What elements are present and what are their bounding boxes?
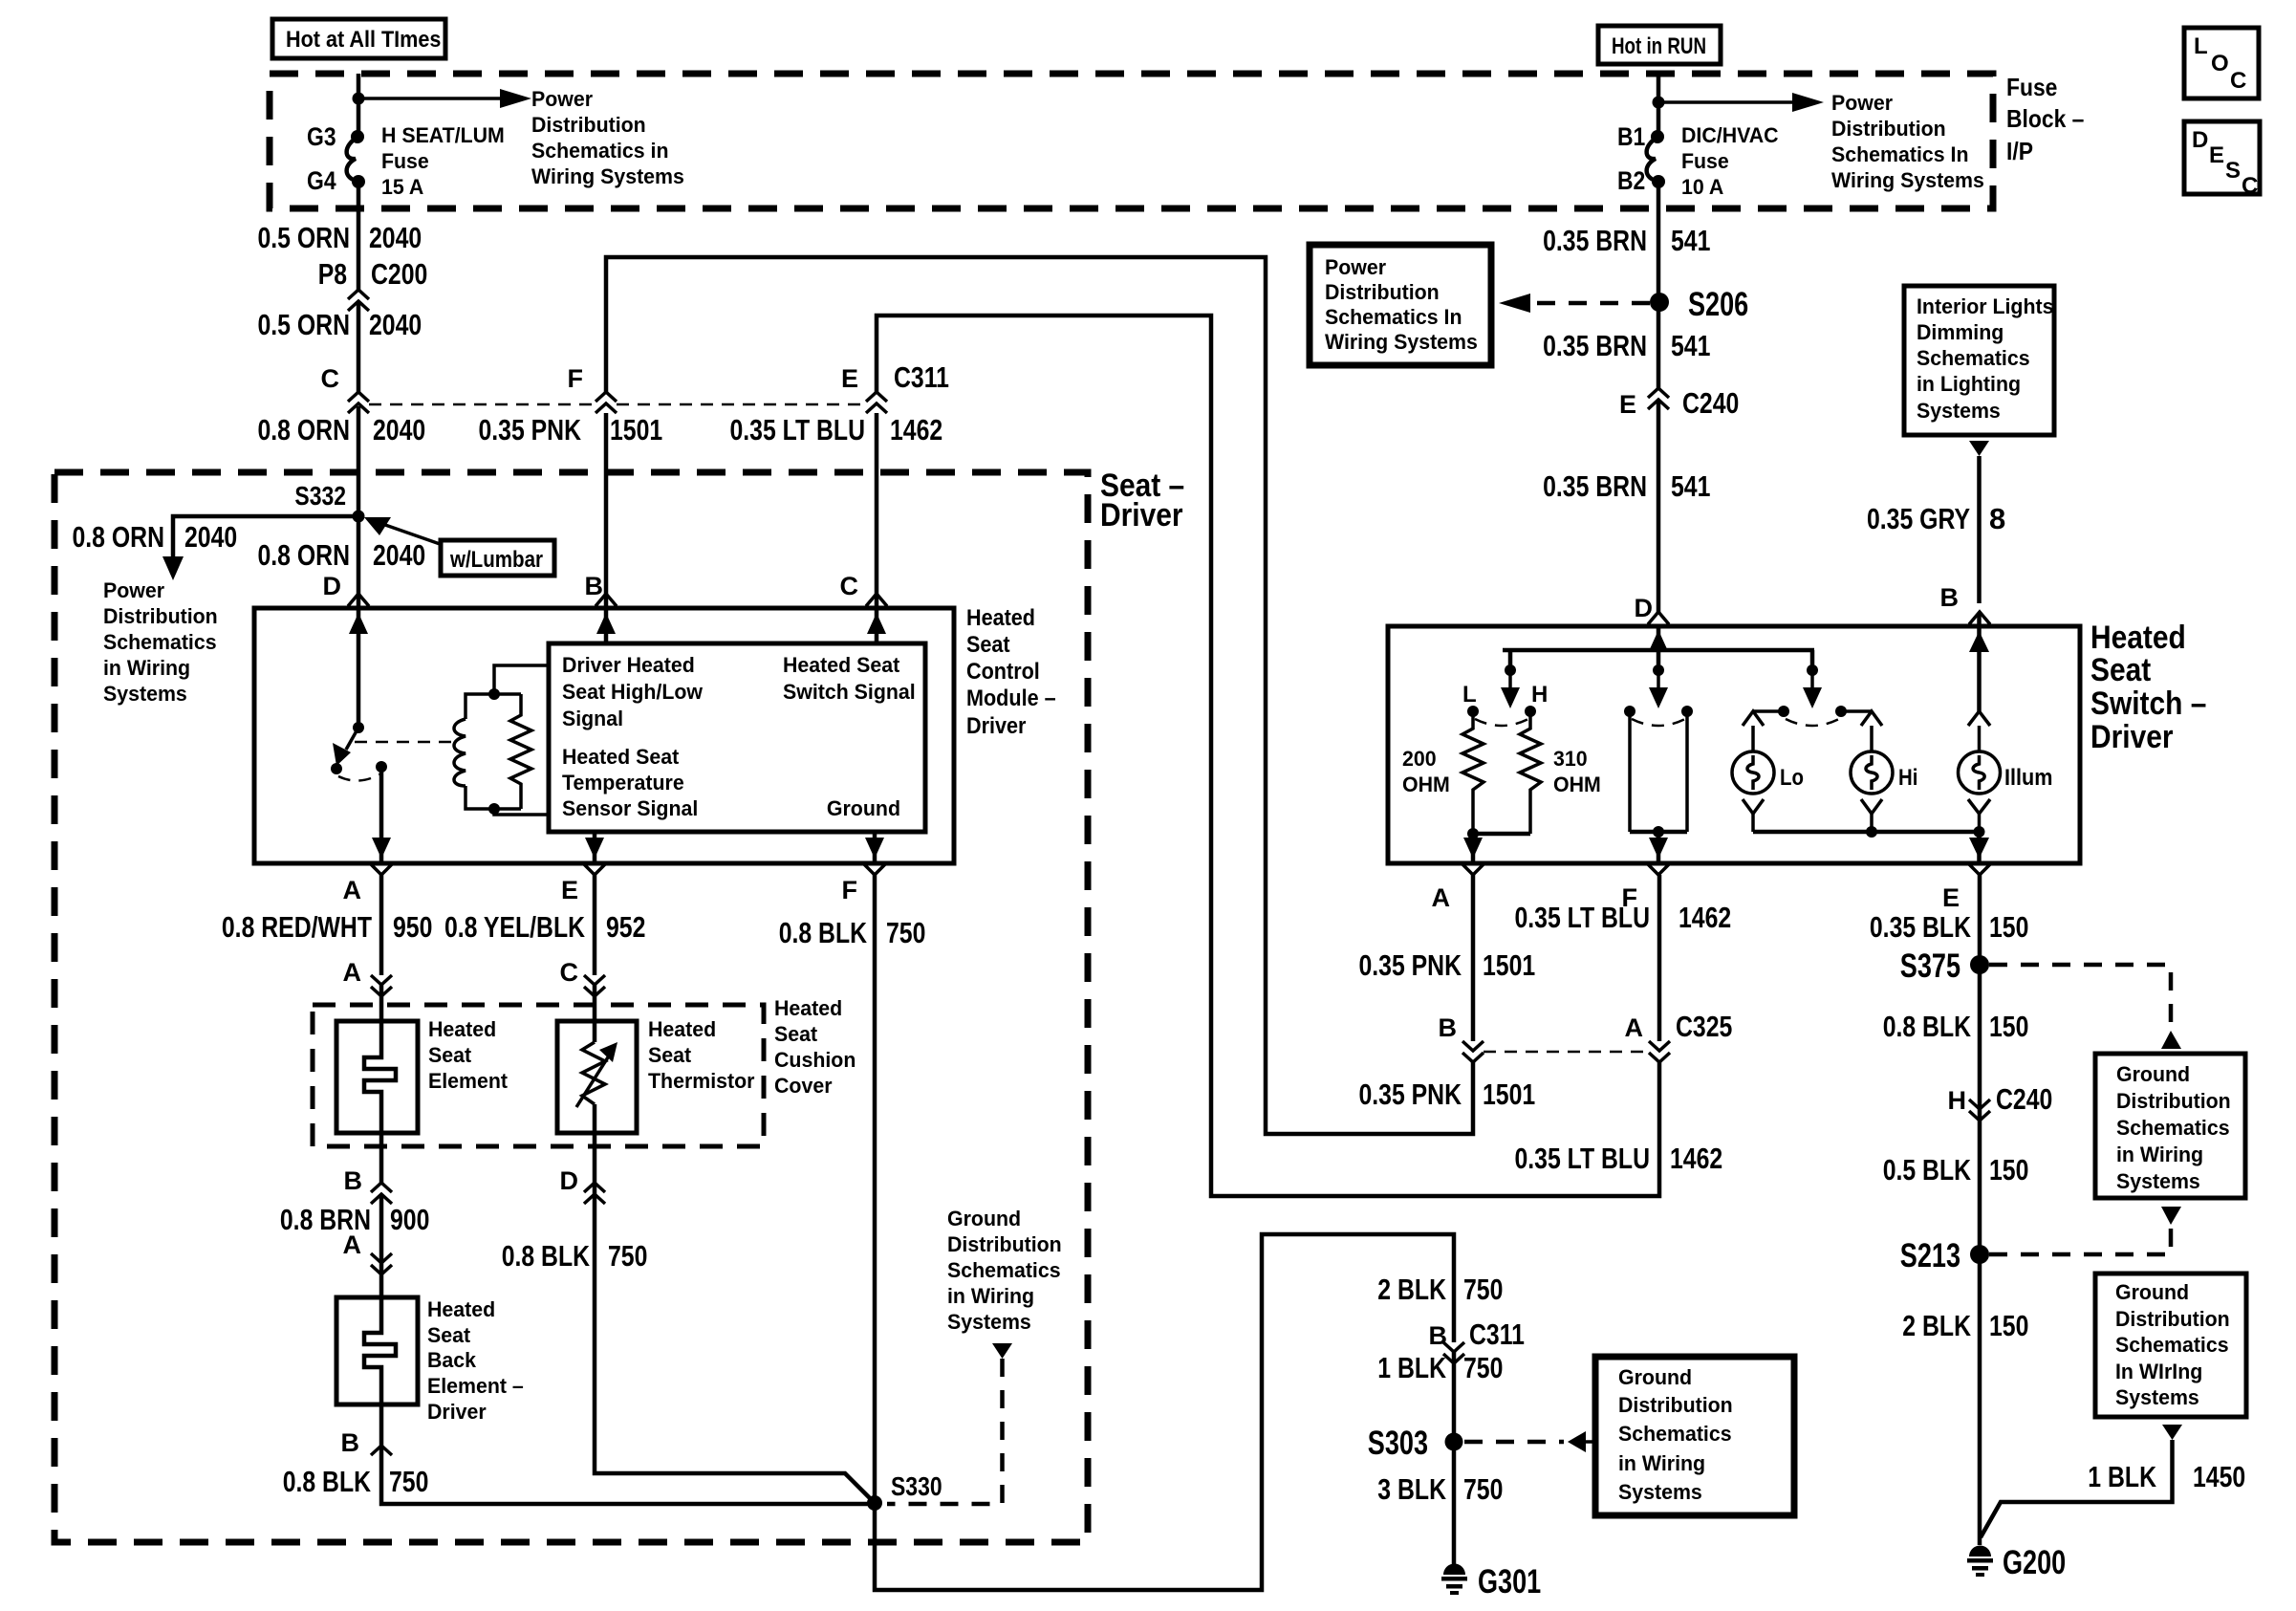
svg-text:S213: S213 xyxy=(1900,1237,1960,1274)
svg-text:Distribution: Distribution xyxy=(531,113,646,137)
svg-text:D: D xyxy=(2192,127,2208,153)
svg-text:0.8 ORN: 0.8 ORN xyxy=(258,413,351,446)
wire: 0.5 ORN 2040 segment xyxy=(357,182,361,290)
svg-text:Switch –: Switch – xyxy=(2090,686,2206,722)
pin B fork (back element) xyxy=(341,1428,393,1457)
svg-text:Schematics In: Schematics In xyxy=(1325,305,1462,329)
ground G301 symbol xyxy=(1441,1563,1541,1600)
wire: S332 branch left with arrow down xyxy=(162,516,358,580)
heated seat thermistor symbol xyxy=(576,1021,617,1133)
svg-text:E: E xyxy=(2209,142,2224,168)
lamp Illum xyxy=(1959,627,2053,832)
pin A fork below switch xyxy=(1432,864,1484,912)
svg-text:1 BLK: 1 BLK xyxy=(1377,1351,1446,1384)
Hot at All Times label box xyxy=(272,19,445,58)
svg-text:Distribution: Distribution xyxy=(2116,1089,2231,1113)
switch internal bus xyxy=(1503,650,1814,670)
svg-text:DIC/HVAC: DIC/HVAC xyxy=(1681,123,1779,147)
pin A fork below module xyxy=(343,864,393,904)
svg-text:Schematics: Schematics xyxy=(103,630,217,654)
switch 3 contacts xyxy=(1753,706,1872,726)
Seat - Driver title xyxy=(1100,468,1184,533)
svg-text:S332: S332 xyxy=(294,481,346,511)
wire: switch output down to pin A with arrow xyxy=(372,767,391,863)
svg-text:S: S xyxy=(2225,158,2241,184)
Seat - Driver dashed box xyxy=(54,472,1088,1542)
heated seat element label xyxy=(428,1017,509,1093)
svg-text:Driver: Driver xyxy=(427,1400,487,1424)
label 0.5 ORN 2040 xyxy=(258,221,422,254)
svg-text:Distribution: Distribution xyxy=(1831,117,1946,141)
svg-text:0.5 ORN: 0.5 ORN xyxy=(258,221,351,254)
heated seat back element box xyxy=(336,1297,418,1404)
G301 column: label 2 BLK 750 xyxy=(1377,1273,1503,1306)
switch 2 stub with arrow xyxy=(1649,664,1668,708)
ground distribution box 1 (right) xyxy=(2095,1054,2245,1198)
svg-text:Seat: Seat xyxy=(2090,652,2151,688)
svg-text:2 BLK: 2 BLK xyxy=(1902,1309,1971,1342)
svg-text:Heated: Heated xyxy=(428,1017,496,1041)
svg-text:1501: 1501 xyxy=(1483,948,1535,982)
wire: E lead xyxy=(593,875,597,975)
connector B chevrons (element) xyxy=(344,1166,393,1204)
svg-text:E: E xyxy=(1619,390,1636,419)
svg-text:B: B xyxy=(1429,1321,1448,1350)
svg-text:Fuse: Fuse xyxy=(2006,73,2057,101)
svg-text:2040: 2040 xyxy=(373,413,425,446)
svg-text:10 A: 10 A xyxy=(1681,175,1723,199)
svg-text:Signal: Signal xyxy=(562,707,623,730)
wire: arrow to power distribution (right) xyxy=(1658,93,1824,112)
pin D fork (switch) xyxy=(1648,612,1669,624)
svg-text:in Wiring: in Wiring xyxy=(2116,1143,2203,1166)
label 0.35 LT BLU 1462 (1) xyxy=(1515,901,1732,934)
svg-text:0.35 PNK: 0.35 PNK xyxy=(1359,1078,1462,1111)
svg-text:Wiring Systems: Wiring Systems xyxy=(531,164,684,188)
svg-text:2040: 2040 xyxy=(369,221,422,254)
w/Lumbar callout box xyxy=(364,517,554,576)
svg-text:Systems: Systems xyxy=(2115,1385,2199,1409)
label 1 BLK 1450 xyxy=(2088,1460,2245,1493)
svg-text:Driver: Driver xyxy=(966,713,1026,739)
wire: switch E lead xyxy=(1978,875,1982,1545)
svg-text:C240: C240 xyxy=(1682,386,1739,420)
svg-text:Switch Signal: Switch Signal xyxy=(783,680,916,704)
triangle to ground note xyxy=(992,1343,1012,1359)
power distribution box (S206) xyxy=(1310,245,1491,365)
label 0.35 BRN 541 (3) xyxy=(1543,469,1710,503)
pin C fork xyxy=(866,594,887,606)
svg-text:B: B xyxy=(344,1166,363,1195)
Hot in RUN label box xyxy=(1598,26,1721,64)
interior lights dimming box xyxy=(1904,286,2054,435)
connector D chevrons (thermistor) xyxy=(560,1166,606,1204)
wire: back element to S330 xyxy=(381,1404,871,1504)
svg-text:Driver: Driver xyxy=(1100,497,1183,533)
svg-text:Systems: Systems xyxy=(947,1310,1031,1334)
svg-text:A: A xyxy=(1432,883,1451,912)
svg-text:Hot in RUN: Hot in RUN xyxy=(1612,33,1706,59)
cushion cover label xyxy=(774,996,856,1098)
svg-text:C: C xyxy=(2230,68,2246,94)
svg-text:1450: 1450 xyxy=(2193,1460,2245,1493)
svg-text:Ground: Ground xyxy=(827,796,900,820)
svg-text:E: E xyxy=(841,364,858,393)
svg-text:C: C xyxy=(560,958,579,987)
svg-text:0.35 BRN: 0.35 BRN xyxy=(1543,224,1647,257)
label 3 BLK 750 xyxy=(1377,1472,1503,1506)
label 0.5 BLK 150 xyxy=(1883,1153,2029,1186)
svg-text:G200: G200 xyxy=(2003,1544,2066,1581)
svg-text:Back: Back xyxy=(427,1348,477,1372)
pin F fork below switch xyxy=(1622,864,1670,912)
label 0.35 PNK 1501 (1) xyxy=(1359,948,1536,982)
switch lamp bus xyxy=(1753,826,1989,863)
svg-text:2040: 2040 xyxy=(373,538,425,572)
fuse block I/P dashed box xyxy=(270,74,1993,208)
label 1 BLK 750 xyxy=(1377,1351,1503,1384)
svg-text:A: A xyxy=(343,958,362,987)
switch 1 stub with arrow xyxy=(1501,664,1520,708)
label 2 BLK 150 xyxy=(1902,1309,2028,1342)
connector A chevrons xyxy=(343,958,393,996)
module inner box xyxy=(549,643,925,832)
switch 2 contacts xyxy=(1624,706,1693,863)
svg-text:F: F xyxy=(568,364,584,393)
wire: down to back element xyxy=(379,1194,384,1297)
label 0.8 BLK 750 (back element) xyxy=(283,1465,429,1498)
node: junction dot right feed xyxy=(1653,97,1665,109)
svg-text:900: 900 xyxy=(390,1203,429,1236)
fuse F2 value label xyxy=(1681,123,1779,199)
label 0.8 BLK 150 xyxy=(1883,1010,2029,1043)
dashed link S375 to ground box 1 xyxy=(1989,965,2171,1025)
svg-text:541: 541 xyxy=(1671,469,1710,503)
svg-text:Ground: Ground xyxy=(2115,1280,2189,1304)
svg-text:1 BLK: 1 BLK xyxy=(2088,1460,2156,1493)
label 0.35 PNK 1501 (2) xyxy=(1359,1078,1536,1111)
fuse F2 DIC/HVAC 10A xyxy=(1647,130,1665,188)
pin E fork below module xyxy=(561,864,605,904)
svg-text:3 BLK: 3 BLK xyxy=(1377,1472,1446,1506)
svg-text:Heated: Heated xyxy=(774,996,842,1020)
svg-text:950: 950 xyxy=(393,910,432,944)
inner box signal labels xyxy=(562,653,704,820)
node S303 xyxy=(1368,1425,1463,1462)
svg-text:A: A xyxy=(343,1230,362,1259)
svg-text:S375: S375 xyxy=(1900,947,1960,985)
switch title xyxy=(2090,620,2206,755)
svg-text:B: B xyxy=(341,1428,360,1457)
svg-text:Seat: Seat xyxy=(428,1043,472,1067)
svg-text:0.8 BLK: 0.8 BLK xyxy=(1883,1010,1972,1043)
svg-text:Systems: Systems xyxy=(2116,1169,2200,1193)
connector C311 dashed line xyxy=(369,403,866,406)
lamp Hi xyxy=(1851,711,1917,832)
svg-text:Element –: Element – xyxy=(427,1374,524,1398)
svg-text:0.8 ORN: 0.8 ORN xyxy=(258,538,351,572)
connector C240 pin E chevrons xyxy=(1619,386,1739,420)
svg-text:750: 750 xyxy=(1463,1273,1503,1306)
dashed link S303 to ground box xyxy=(1464,1431,1594,1452)
svg-text:1501: 1501 xyxy=(1483,1078,1535,1111)
svg-text:Cushion: Cushion xyxy=(774,1048,856,1072)
svg-text:Cover: Cover xyxy=(774,1074,833,1098)
heated seat thermistor box xyxy=(557,1021,637,1133)
svg-text:0.8 ORN: 0.8 ORN xyxy=(73,520,165,554)
heated seat switch box xyxy=(1388,626,2080,863)
svg-text:Sensor Signal: Sensor Signal xyxy=(562,796,698,820)
svg-text:Heated: Heated xyxy=(648,1017,716,1041)
pin F fork below module xyxy=(842,864,886,904)
svg-text:0.8 YEL/BLK: 0.8 YEL/BLK xyxy=(444,910,585,944)
svg-text:E: E xyxy=(561,876,578,904)
svg-text:B2: B2 xyxy=(1617,166,1645,195)
fuse F1 H SEAT/LUM 15A xyxy=(347,130,365,188)
svg-text:in Lighting: in Lighting xyxy=(1917,372,2021,396)
svg-text:2040: 2040 xyxy=(184,520,237,554)
node S206 xyxy=(1650,286,1748,323)
label 0.8 ORN 2040 (main) xyxy=(258,538,426,572)
svg-text:150: 150 xyxy=(1989,1309,2028,1342)
label 0.8 ORN 2040 (below C) xyxy=(258,413,426,446)
svg-text:F: F xyxy=(842,876,858,904)
wire: B into switch box xyxy=(1977,614,1982,627)
node S213 xyxy=(1900,1237,1989,1274)
dashed link S330 to ground note xyxy=(887,1359,1003,1504)
svg-text:Power: Power xyxy=(1325,255,1387,279)
svg-text:Ground: Ground xyxy=(947,1207,1021,1230)
svg-text:Systems: Systems xyxy=(103,682,187,706)
svg-text:310: 310 xyxy=(1553,747,1588,771)
svg-text:0.8 BLK: 0.8 BLK xyxy=(502,1239,591,1273)
label 0.35 PNK 1501 (below F) xyxy=(479,413,663,446)
wire: arrow to power distribution (left) xyxy=(358,89,531,108)
ground G200 symbol xyxy=(1967,1544,2066,1581)
wire: thermistor to S330 xyxy=(595,1133,875,1503)
lamp Lo xyxy=(1732,711,1804,832)
heated seat back element label xyxy=(427,1297,524,1424)
wire: C240 to switch xyxy=(1657,400,1661,613)
svg-text:Wiring Systems: Wiring Systems xyxy=(1831,168,1984,192)
svg-text:B: B xyxy=(1940,583,1960,612)
label 0.35 BLK 150 xyxy=(1870,910,2029,944)
svg-text:Heated Seat: Heated Seat xyxy=(562,745,680,769)
svg-text:Power: Power xyxy=(1831,91,1894,115)
svg-text:Schematics In: Schematics In xyxy=(1831,142,1969,166)
svg-text:C: C xyxy=(2242,173,2258,199)
connector C311 pin F chevron xyxy=(568,364,617,413)
svg-text:0.8 BLK: 0.8 BLK xyxy=(283,1465,372,1498)
svg-text:Illum: Illum xyxy=(2004,765,2052,791)
wire: illumination feed xyxy=(1977,456,1982,603)
power distribution note (top left) xyxy=(531,87,684,188)
svg-text:Wiring Systems: Wiring Systems xyxy=(1325,330,1478,354)
svg-text:Lo: Lo xyxy=(1780,765,1804,791)
svg-text:B: B xyxy=(585,572,604,600)
heated seat control module box xyxy=(254,608,954,863)
svg-text:0.35 PNK: 0.35 PNK xyxy=(479,413,582,446)
wire: left feed from fuse box top xyxy=(357,74,361,137)
svg-text:8: 8 xyxy=(1989,502,2005,535)
svg-text:Systems: Systems xyxy=(1618,1480,1702,1504)
pin E fork below switch xyxy=(1942,864,1990,912)
svg-text:Schematics: Schematics xyxy=(1917,346,2030,370)
svg-text:Seat: Seat xyxy=(648,1043,692,1067)
svg-text:1462: 1462 xyxy=(890,413,942,446)
fuse F1 value label xyxy=(381,123,505,199)
svg-text:952: 952 xyxy=(606,910,645,944)
svg-text:Schematics: Schematics xyxy=(1618,1422,1732,1446)
svg-text:O: O xyxy=(2211,51,2229,76)
svg-text:0.8 BLK: 0.8 BLK xyxy=(779,916,868,949)
svg-text:Schematics: Schematics xyxy=(2116,1116,2230,1140)
connector C325 pin A chevrons xyxy=(1625,1010,1733,1062)
svg-text:Hot at All TImes: Hot at All TImes xyxy=(286,27,441,53)
svg-text:D: D xyxy=(560,1166,579,1195)
svg-text:1501: 1501 xyxy=(610,413,662,446)
svg-text:C311: C311 xyxy=(894,360,949,394)
svg-text:C200: C200 xyxy=(371,257,427,291)
label 0.35 LT BLU 1462 (2) xyxy=(1515,1142,1723,1175)
wire: B entry into module with arrow xyxy=(596,609,616,643)
wire: right feed from fuse box top xyxy=(1657,74,1661,137)
heated seat back element symbol xyxy=(364,1297,396,1404)
wire: switch F to C325 xyxy=(1657,875,1662,1041)
DESC box xyxy=(2184,121,2260,199)
wire: switch A to C325 xyxy=(1471,875,1476,1041)
connector A chevrons (back element) xyxy=(343,1230,393,1274)
svg-text:750: 750 xyxy=(886,916,925,949)
svg-text:0.35 PNK: 0.35 PNK xyxy=(1359,948,1462,982)
wire: inner box down to pin E with arrow xyxy=(585,832,604,863)
power distribution note (top right) xyxy=(1831,91,1984,192)
svg-text:Heated: Heated xyxy=(966,605,1035,631)
svg-text:Driver: Driver xyxy=(2090,719,2174,755)
svg-text:200: 200 xyxy=(1402,747,1437,771)
svg-text:A: A xyxy=(343,876,362,904)
svg-text:541: 541 xyxy=(1671,224,1710,257)
inner box switch signal label xyxy=(783,653,916,704)
LOC box xyxy=(2184,28,2259,98)
svg-text:B1: B1 xyxy=(1617,122,1645,151)
pin D fork xyxy=(348,594,369,606)
svg-text:A: A xyxy=(1625,1013,1644,1042)
svg-text:Heated Seat: Heated Seat xyxy=(783,653,900,677)
svg-text:Seat High/Low: Seat High/Low xyxy=(562,680,704,704)
label 0.35 BRN 541 (1) xyxy=(1543,224,1710,257)
label 0.8 BLK 750 (thermistor) xyxy=(502,1239,648,1273)
svg-text:Heated: Heated xyxy=(427,1297,495,1321)
svg-text:Power: Power xyxy=(531,87,594,111)
svg-text:G4: G4 xyxy=(307,166,336,195)
connector C311 pin C chevron xyxy=(321,364,370,413)
svg-text:B: B xyxy=(1439,1013,1458,1042)
wire: C311 to G301 xyxy=(1452,1352,1457,1564)
switch 1 output junction xyxy=(1463,828,1530,863)
svg-text:Seat: Seat xyxy=(966,632,1010,658)
svg-text:w/Lumbar: w/Lumbar xyxy=(449,547,543,573)
svg-text:150: 150 xyxy=(1989,1010,2028,1043)
svg-text:0.35 LT BLU: 0.35 LT BLU xyxy=(1515,1142,1651,1175)
svg-text:in Wiring: in Wiring xyxy=(947,1284,1034,1308)
svg-text:750: 750 xyxy=(608,1239,647,1273)
svg-text:150: 150 xyxy=(1989,1153,2028,1186)
svg-text:in Wiring: in Wiring xyxy=(103,656,190,680)
svg-text:P8: P8 xyxy=(318,257,347,291)
wire: inner box ground down to pin F with arrow xyxy=(865,832,884,863)
svg-text:S206: S206 xyxy=(1688,286,1748,323)
resistor 200 OHM xyxy=(1402,711,1484,834)
svg-text:L: L xyxy=(2194,33,2208,59)
svg-text:E: E xyxy=(1942,883,1960,912)
svg-text:15 A: 15 A xyxy=(381,175,423,199)
node S332 xyxy=(294,481,364,523)
svg-text:0.35 LT BLU: 0.35 LT BLU xyxy=(1515,901,1651,934)
ground distribution box (G301) xyxy=(1595,1357,1794,1515)
svg-text:750: 750 xyxy=(1463,1472,1503,1506)
svg-text:0.5 ORN: 0.5 ORN xyxy=(258,308,351,341)
svg-text:0.35 GRY: 0.35 GRY xyxy=(1867,502,1970,535)
dashed link S213 to ground box 1 lower triangle xyxy=(1989,1207,2181,1254)
heated seat cushion cover dashed box xyxy=(313,1005,764,1146)
svg-text:I/P: I/P xyxy=(2006,137,2033,165)
pin B fork xyxy=(596,594,617,606)
svg-text:G301: G301 xyxy=(1478,1563,1541,1600)
wire: D entry into switch with arrow xyxy=(1649,626,1668,670)
svg-text:0.35 BRN: 0.35 BRN xyxy=(1543,329,1647,362)
label 0.35 LT BLU 1462 (below E) xyxy=(730,413,943,446)
svg-text:Schematics: Schematics xyxy=(2115,1333,2229,1357)
triangle below ground box 2 xyxy=(2162,1425,2182,1440)
label 0.8 BLK 750 (F) xyxy=(779,916,926,949)
svg-text:C325: C325 xyxy=(1676,1010,1732,1043)
module title xyxy=(966,605,1056,739)
ground distribution note (seat area) xyxy=(947,1207,1062,1334)
svg-text:Temperature: Temperature xyxy=(562,771,684,795)
label 0.8 ORN 2040 (branch) xyxy=(73,520,238,554)
svg-text:Element: Element xyxy=(428,1069,509,1093)
svg-text:750: 750 xyxy=(1463,1351,1503,1384)
svg-text:Schematics: Schematics xyxy=(947,1258,1061,1282)
triangle into ground box 1 xyxy=(2161,1031,2181,1049)
label 0.8 BRN 900 xyxy=(280,1203,430,1236)
power distribution note (left column) xyxy=(103,578,218,706)
svg-text:S303: S303 xyxy=(1368,1425,1428,1462)
svg-text:Heated: Heated xyxy=(2090,620,2186,656)
svg-text:Distribution: Distribution xyxy=(1618,1393,1733,1417)
svg-text:2040: 2040 xyxy=(369,308,422,341)
node S330 xyxy=(867,1471,942,1511)
svg-text:Driver Heated: Driver Heated xyxy=(562,653,695,677)
Fuse Block - I/P title xyxy=(2006,73,2084,165)
svg-text:G3: G3 xyxy=(307,122,336,151)
wire: A lead 2 xyxy=(379,985,384,1021)
ground distribution box 2 (right) xyxy=(2095,1274,2246,1417)
dashed link S206 to power box xyxy=(1499,294,1650,313)
svg-text:Dimming: Dimming xyxy=(1917,320,2004,344)
svg-text:OHM: OHM xyxy=(1402,773,1450,796)
svg-text:2 BLK: 2 BLK xyxy=(1377,1273,1446,1306)
wire: 1 BLK 1450 to G200 xyxy=(1981,1440,2173,1537)
svg-text:Thermistor: Thermistor xyxy=(648,1069,755,1093)
connector C325 dashed line xyxy=(1484,1051,1649,1054)
svg-text:S330: S330 xyxy=(891,1471,942,1501)
svg-text:in Wiring: in Wiring xyxy=(1618,1451,1705,1475)
svg-text:Schematics in: Schematics in xyxy=(531,139,669,163)
svg-text:C: C xyxy=(321,364,340,393)
svg-text:L: L xyxy=(1462,682,1477,708)
